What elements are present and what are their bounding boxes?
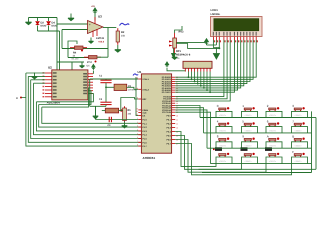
svg-text:<TEXT>: <TEXT> (269, 129, 277, 132)
button keypad r2c2 (242, 119, 255, 132)
svg-text:<TEXT>: <TEXT> (219, 114, 227, 117)
svg-text:B: B (292, 135, 294, 139)
net label blue scribble 2 (133, 74, 138, 76)
svg-text:+88.8: +88.8 (98, 41, 105, 44)
wire bundle ADC left pins (26, 72, 45, 74)
ground op-amp V- (89, 38, 94, 44)
wire keypad cell r1c3 (266, 111, 282, 117)
button keypad r4c4 (292, 150, 305, 163)
svg-text:<TEXT>: <TEXT> (245, 114, 253, 117)
wire VDD link (207, 44, 217, 46)
wire keypad bottom link (311, 164, 313, 173)
svg-text:-: - (89, 29, 90, 33)
ground RV3 (172, 53, 178, 59)
svg-text:A: A (267, 135, 269, 139)
svg-text:10: 10 (176, 114, 178, 117)
wire keypad bottom 1 (199, 168, 317, 170)
pin marker R4 (81, 50, 83, 52)
wire P1.0 rail (96, 119, 139, 121)
power arrow down VDD rail (172, 54, 176, 58)
wire LCD data to MCU P0 (175, 40, 234, 92)
ground G2 (68, 14, 74, 21)
svg-text:+: + (89, 22, 91, 26)
svg-text:<TEXT>: <TEXT> (219, 145, 227, 148)
ground LCD (213, 48, 220, 59)
resistor pack pins (184, 68, 186, 71)
wire keypad cell r3c3 (266, 142, 282, 148)
wire ground rail (90, 105, 106, 107)
ground sensor (80, 62, 85, 68)
svg-text:<TEXT>: <TEXT> (295, 145, 303, 148)
svg-text:<TEXT>: <TEXT> (245, 160, 253, 163)
svg-text:<TEXT>: <TEXT> (295, 114, 303, 117)
wire keypad cell r2c1 (216, 127, 232, 133)
button keypad r3c1 (217, 135, 230, 148)
wire XTAL2 (127, 87, 139, 89)
svg-text:P0.7/AD7: P0.7/AD7 (162, 91, 172, 94)
wire op-amp inv input (62, 29, 88, 31)
svg-text:13: 13 (176, 126, 178, 129)
wire inv to feedback (61, 30, 63, 49)
wire left rail (89, 79, 91, 106)
svg-text:<TEXT>: <TEXT> (219, 129, 227, 132)
svg-text:4: 4 (137, 129, 138, 132)
svg-text:XTAL2: XTAL2 (142, 88, 149, 91)
ground R1 (122, 122, 128, 128)
wire to ADC top (71, 62, 73, 70)
pin marker sensor (95, 61, 97, 63)
resistor R4 feedback (70, 46, 87, 49)
ground G1 (25, 18, 31, 25)
svg-text:+5V: +5V (91, 5, 95, 8)
svg-text:U2: U2 (48, 66, 52, 70)
wire keypad outer right (315, 118, 317, 170)
wire C1 top stub (105, 79, 107, 80)
svg-text:RV3: RV3 (179, 31, 185, 34)
wire keypad cell r4c2 (242, 157, 258, 164)
svg-text:LM016L: LM016L (211, 13, 221, 16)
svg-text:6: 6 (137, 136, 138, 139)
wire D2 top (37, 18, 39, 22)
wire D2 bottom (37, 26, 39, 32)
svg-text:LCD1: LCD1 (211, 8, 219, 12)
IC U2 left pins (45, 72, 52, 74)
svg-text:DIOD: DIOD (41, 25, 47, 28)
wire net4 stub (22, 97, 26, 99)
power MCU VCC (165, 62, 168, 67)
svg-text:EA: EA (142, 114, 145, 117)
wire sensor left (68, 57, 89, 59)
wire keypad cell r4c3 (266, 157, 282, 164)
wire bundle ADC data wrap (36, 94, 93, 102)
wire bus ADC to MCU P1 (26, 73, 141, 146)
wire D4 top (48, 18, 50, 22)
potentiometer RV3 (169, 33, 176, 53)
LCD pins (212, 37, 214, 41)
wire RV3 top (175, 26, 182, 33)
wire node A drop (56, 18, 58, 70)
svg-text:D4: D4 (52, 22, 56, 25)
button keypad r4c1 (213, 147, 229, 163)
button keypad r1c2 (242, 104, 255, 117)
wire keypad cell r4c4 (292, 157, 308, 164)
wire keypad row 1 (200, 117, 312, 119)
svg-text:2: 2 (137, 121, 138, 124)
svg-text:<TEXT>: <TEXT> (295, 129, 303, 132)
wire EA net (136, 77, 138, 115)
wire VDD drop (215, 40, 217, 45)
wire keypad cell r1c2 (242, 111, 258, 117)
svg-text:RST: RST (142, 98, 147, 101)
IC U1 AT89C51 body (141, 74, 171, 153)
svg-text:19: 19 (136, 77, 138, 80)
wire keypad bottom 2 (202, 172, 312, 174)
svg-text:ALE: ALE (142, 112, 147, 115)
wire keypad right edge (311, 111, 313, 163)
svg-text:1: 1 (137, 117, 138, 120)
wire node B drop (59, 31, 61, 70)
button keypad r4c2 (241, 147, 255, 163)
sensor U4 body (84, 56, 101, 59)
wire keypad right link (312, 117, 317, 119)
svg-text:ADC0804: ADC0804 (47, 101, 61, 105)
wire op-amp noninv input (57, 23, 88, 25)
wire keypad cell r2c2 (242, 127, 258, 133)
button keypad r3c3 (267, 135, 280, 148)
button keypad r1c1 (217, 104, 230, 117)
svg-text:P2.7/A15: P2.7/A15 (162, 111, 172, 114)
capacitor C1 plates (100, 80, 111, 83)
svg-text:12: 12 (176, 122, 178, 125)
svg-text:9: 9 (137, 97, 138, 100)
net label blue scribble (120, 23, 130, 25)
wire op-amp out (103, 27, 116, 29)
wire XTAL1 rail (90, 78, 139, 80)
svg-text:31: 31 (136, 113, 138, 116)
wire keypad cell r1c4 (292, 111, 308, 117)
LCD screen (214, 19, 259, 31)
wire RS RW E to MCU (175, 40, 224, 97)
svg-text:<TEXT>: <TEXT> (245, 129, 253, 132)
button keypad r2c3 (267, 119, 280, 132)
wire keypad cell r3c4 (292, 142, 308, 148)
wire keypad cell r4c1 (216, 157, 232, 164)
wire to crystal (106, 86, 114, 88)
wire keypad row 4 (211, 163, 312, 165)
wire VDD rail (174, 43, 207, 54)
wire diode bottom rail (38, 30, 60, 32)
wire C2 bottom stub (105, 105, 107, 107)
svg-text:D2: D2 (41, 22, 45, 25)
capacitor C2 plates (100, 102, 111, 104)
wire keypad cell r3c2 (242, 142, 258, 148)
button keypad r3c2 (242, 135, 255, 148)
svg-text:<TEXT>: <TEXT> (219, 160, 227, 163)
svg-text:18: 18 (136, 87, 138, 90)
LCD LCD1 LM016L body (211, 17, 263, 37)
button keypad r2c4 (292, 119, 305, 132)
resistor R2 (116, 28, 119, 45)
svg-text:11: 11 (176, 118, 178, 121)
ground R2 (115, 45, 121, 52)
button keypad r1c4 (292, 104, 305, 117)
svg-text:U1: U1 (138, 70, 142, 74)
svg-text:RESPACK-8: RESPACK-8 (176, 54, 191, 57)
wire top rail (29, 17, 58, 19)
wire C3 to R1 (119, 110, 123, 112)
svg-text:<TEXT>: <TEXT> (269, 160, 277, 163)
wire RST net (121, 98, 139, 111)
svg-text:3: 3 (137, 125, 138, 128)
wire feedback rail (62, 48, 108, 50)
ground crystal rail (93, 106, 99, 119)
IC U2 right pins (88, 73, 93, 75)
wire keypad cell r1c1 (216, 111, 232, 117)
button keypad r4c3 (265, 147, 279, 163)
svg-text:F: F (292, 150, 294, 154)
wire lower rail (57, 61, 84, 63)
button keypad r3c4 (292, 135, 305, 148)
svg-text:27.0: 27.0 (87, 61, 92, 64)
svg-text:AT89C51: AT89C51 (143, 156, 156, 160)
svg-text:PSEN: PSEN (142, 109, 148, 112)
wire ADC VCC (92, 71, 94, 74)
junction VEE (218, 47, 220, 49)
wire out branch down (107, 28, 109, 58)
junction crystal tap (105, 86, 107, 88)
svg-text:XTAL1: XTAL1 (142, 78, 149, 81)
svg-text:5: 5 (137, 132, 138, 135)
svg-text:10k: 10k (121, 35, 126, 38)
wire feedback loop (68, 41, 77, 49)
capacitor C4 plates (109, 117, 111, 122)
op-amp U3 (88, 12, 104, 37)
IC U2 ADC0804 body (52, 70, 88, 100)
svg-text:R2: R2 (121, 31, 125, 34)
wire keypad row 3 (207, 147, 312, 149)
wire to sensor (67, 49, 69, 58)
button keypad r1c3 (267, 104, 280, 117)
power LCD VDD (205, 39, 209, 45)
IC U1 left pins (138, 78, 141, 80)
wire MCU to keypad cols (175, 132, 216, 167)
crystal X1 (114, 84, 127, 90)
svg-text:29: 29 (136, 108, 138, 111)
wire cap column (105, 83, 107, 103)
wire keypad cell r2c4 (292, 127, 308, 133)
diode D2 (36, 22, 40, 25)
power op-amp V+ (93, 8, 97, 14)
wire respack to data bus (187, 72, 189, 78)
wire RV3 wiper to VEE (176, 44, 219, 49)
pin marker net4 (20, 97, 22, 99)
svg-text:7: 7 (137, 140, 138, 143)
wire keypad cell r2c3 (266, 127, 282, 133)
wire C3 left stub (102, 110, 106, 112)
capacitor C3 electrolytic (105, 108, 118, 113)
wire VCC to respack (167, 68, 185, 72)
wire VSS VEE gnd (213, 40, 219, 48)
svg-text:<TEXT>: <TEXT> (245, 145, 253, 148)
resistor pack RP1 RESPACK-8 body (183, 61, 212, 68)
wire keypad cell r3c1 (216, 142, 232, 148)
svg-text:<TEXT>: <TEXT> (269, 114, 277, 117)
svg-text:U3: U3 (98, 15, 102, 19)
IC U1 right pins (172, 76, 176, 78)
svg-text:<TEXT>: <TEXT> (269, 145, 277, 148)
svg-text:30: 30 (136, 110, 138, 113)
button keypad r2c1 (217, 119, 230, 132)
svg-text:<TEXT>: <TEXT> (295, 160, 303, 163)
ground ADC (32, 73, 38, 79)
svg-text:8: 8 (137, 144, 138, 147)
wire MCU to keypad rows (175, 106, 200, 118)
power +5V (92, 65, 95, 70)
pin marker C3 plus (120, 109, 122, 111)
wire sensor out (97, 56, 108, 58)
wire D4 bottom (48, 26, 50, 32)
wire keypad row 2 (204, 132, 312, 134)
diode D4 (47, 22, 51, 25)
resistor R1 (123, 106, 127, 121)
